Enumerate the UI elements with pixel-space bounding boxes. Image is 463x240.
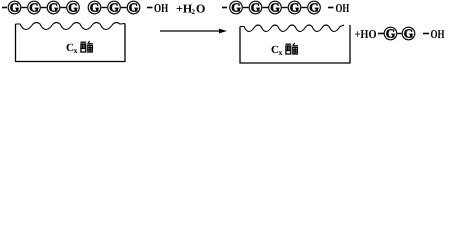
glyph: Chinese character MEI (enzyme) drawn as strokes [286,43,298,55]
wire: bond G5-G6 [102,7,108,9]
svg-text:G: G [129,1,139,15]
label: Cx enzyme text in right box [271,43,298,57]
wire: bond G2-G3 [41,7,47,9]
svg-text:G: G [49,1,59,15]
svg-text:G: G [386,27,396,41]
svg-text:G: G [90,1,100,15]
svg-text:G: G [68,1,78,15]
wire: leading bond dash of right chain [222,7,227,9]
wire: bond G1-G2 [22,7,28,9]
node G11: glucose unit circle 4 of right chain [288,1,301,15]
svg-text:G: G [404,27,414,41]
svg-text:G: G [231,1,241,15]
node G4: glucose unit circle 4 of left chain (cleavage gap follows) [67,1,80,15]
wire: cellobiose bond [398,33,402,35]
node G12: glucose unit circle 5 of right chain [308,1,321,15]
right box: wavy-top enzyme container [240,25,350,63]
wire: bond right chain 1-2 [243,7,249,9]
svg-text:G: G [309,1,319,15]
wire: bond G3-G4 [61,7,67,9]
svg-text:G: G [29,1,39,15]
svg-text:G: G [290,1,300,15]
svg-text:x: x [74,46,78,55]
svg-text:O: O [196,2,205,16]
svg-text:G: G [270,1,280,15]
node G1: glucose unit circle 1 of left chain [8,1,21,15]
wire: bond right chain 2-3 [263,7,269,9]
label: +HO- prefix of cellobiose product [355,27,385,41]
label: Cx enzyme text in left box [66,41,93,55]
wire: bond right chain 4-5 [302,7,308,9]
node G10: glucose unit circle 3 of right chain [269,1,282,15]
label: terminal -OH of cellobiose [423,27,445,41]
wire: bond G6-G7 [121,7,127,9]
label: terminal -OH of right chain [328,1,350,15]
left box: wavy-top enzyme container [16,23,126,62]
svg-text:G: G [10,1,20,15]
wire: leading bond dash of left chain [2,7,7,9]
wire: bond right chain 3-4 [282,7,288,9]
node G9: glucose unit circle 2 of right chain [249,1,262,15]
node G8: glucose unit circle 1 of right chain [230,1,243,15]
svg-text:+H: +H [176,2,193,16]
svg-text:x: x [279,48,283,57]
svg-text:OH: OH [336,1,350,15]
node G3: glucose unit circle 3 of left chain [47,1,60,15]
svg-text:G: G [109,1,119,15]
node G14: cellobiose glucose circle 2 [402,27,415,41]
node G6: glucose unit circle 6 of left chain [108,1,121,15]
label: terminal -OH of left chain [147,1,169,15]
svg-text:G: G [251,1,261,15]
svg-text:OH: OH [431,27,445,41]
node G2: glucose unit circle 2 of left chain [28,1,41,15]
svg-text:OH: OH [154,1,169,15]
node G5: glucose unit circle 5 of left chain [88,1,101,15]
label: +H2O reactant [176,2,205,17]
glyph: Chinese character MEI (enzyme) drawn as strokes [81,41,93,53]
node G7: glucose unit circle 7 of left chain [127,1,140,15]
svg-text:2: 2 [192,8,196,16]
svg-text:+HO: +HO [355,27,377,41]
arrow: reaction arrow [160,29,227,34]
node G13: cellobiose glucose circle 1 [384,27,397,41]
